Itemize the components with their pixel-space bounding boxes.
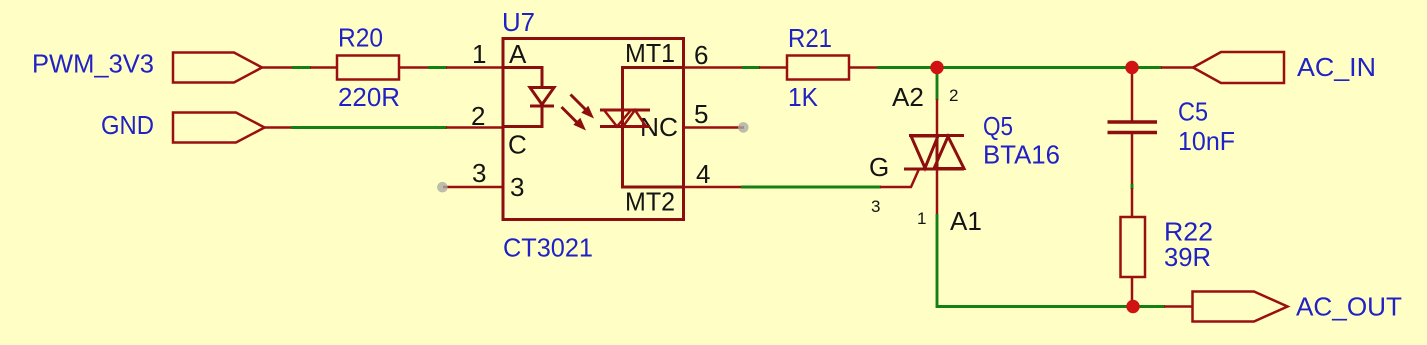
svg-text:5: 5 bbox=[694, 99, 708, 129]
resistor R21 bbox=[787, 23, 849, 112]
port GND bbox=[101, 110, 265, 143]
svg-text:3: 3 bbox=[510, 172, 524, 202]
wire R20 to U7 pin 1 bbox=[399, 39, 503, 69]
port AC_OUT bbox=[1193, 292, 1403, 322]
wire junction to AC_OUT port bbox=[1133, 305, 1193, 308]
wire junction to AC_IN port bbox=[1132, 66, 1193, 69]
U7 internal LED bbox=[503, 68, 554, 127]
resistor R22 bbox=[1121, 188, 1214, 306]
svg-text:U7: U7 bbox=[502, 7, 535, 37]
U7 inner output box bbox=[623, 38, 684, 217]
port PWM_3V3 bbox=[32, 49, 262, 83]
svg-text:PWM_3V3: PWM_3V3 bbox=[32, 49, 154, 79]
optocoupler U7 CT3021 body bbox=[502, 7, 684, 263]
svg-text:2: 2 bbox=[949, 86, 958, 105]
U7 pin 6 wire to R21 bbox=[684, 40, 788, 70]
U7 internal photo-triac bbox=[600, 110, 650, 127]
port AC_IN bbox=[1193, 52, 1376, 83]
svg-text:1: 1 bbox=[472, 39, 486, 69]
svg-text:MT2: MT2 bbox=[625, 187, 675, 217]
svg-text:A1: A1 bbox=[950, 206, 982, 236]
svg-text:AC_IN: AC_IN bbox=[1297, 52, 1376, 82]
wire R21 to AC_IN node bbox=[849, 66, 1162, 69]
svg-text:2: 2 bbox=[471, 101, 485, 131]
node junction at triac A2 bbox=[930, 61, 943, 74]
svg-text:6: 6 bbox=[694, 40, 708, 70]
node junction AC_IN bbox=[1125, 61, 1138, 74]
svg-text:1: 1 bbox=[917, 209, 926, 228]
wire C5 to R22 bbox=[1131, 184, 1134, 189]
svg-text:4: 4 bbox=[696, 159, 710, 189]
svg-text:MT1: MT1 bbox=[625, 38, 675, 68]
wire GND to U7 pin 2 bbox=[262, 101, 503, 131]
wire A2 branch bbox=[892, 70, 958, 136]
resistor R20 bbox=[337, 23, 400, 113]
svg-text:220R: 220R bbox=[338, 82, 400, 112]
svg-text:Q5: Q5 bbox=[983, 111, 1013, 141]
U7 light arrows bbox=[562, 95, 595, 131]
transistor Q5 triac bbox=[869, 111, 1060, 236]
svg-text:R21: R21 bbox=[788, 23, 832, 53]
svg-text:GND: GND bbox=[101, 110, 154, 140]
svg-text:1K: 1K bbox=[788, 82, 819, 112]
U7 pin 3 stub (no connect) bbox=[437, 158, 503, 193]
svg-text:CT3021: CT3021 bbox=[503, 233, 593, 263]
svg-text:39R: 39R bbox=[1164, 242, 1211, 272]
svg-text:C5: C5 bbox=[1178, 97, 1208, 127]
capacitor C5 bbox=[1108, 74, 1236, 185]
svg-text:A2: A2 bbox=[892, 82, 924, 112]
svg-text:R20: R20 bbox=[338, 23, 383, 53]
U7 pin 4 wire to gate bbox=[684, 159, 882, 189]
node junction AC_OUT bbox=[1126, 300, 1139, 313]
U7 pin 5 stub (no connect) bbox=[684, 99, 749, 133]
svg-text:C: C bbox=[508, 130, 527, 160]
svg-text:3: 3 bbox=[871, 197, 880, 216]
svg-text:BTA16: BTA16 bbox=[983, 140, 1060, 170]
svg-text:10nF: 10nF bbox=[1178, 126, 1235, 156]
svg-text:3: 3 bbox=[472, 158, 486, 188]
svg-text:G: G bbox=[869, 152, 889, 182]
svg-text:AC_OUT: AC_OUT bbox=[1296, 292, 1402, 322]
svg-text:A: A bbox=[509, 39, 527, 69]
wire A1 to AC_OUT net bbox=[937, 169, 1135, 307]
wire PWM_3V3 to R20 bbox=[262, 66, 337, 69]
